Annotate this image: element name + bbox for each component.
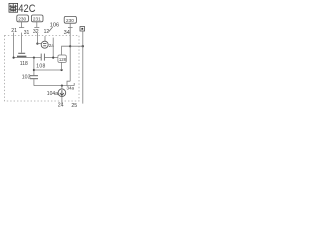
svg-text:34a: 34a (67, 85, 75, 90)
capacitor 103 (30, 76, 38, 79)
svg-text:34: 34 (64, 30, 70, 36)
wire capacitor 103 to bottom bus (33, 79, 35, 85)
capacitor 108 series plates (41, 54, 44, 61)
svg-text:25: 25 (71, 103, 77, 109)
svg-text:118: 118 (20, 61, 28, 67)
terminal stub under box 230 right (68, 23, 73, 27)
wire 32 vertical (36, 33, 38, 44)
svg-text:103: 103 (22, 74, 31, 80)
wire 34 vertical from box 230 right down (69, 28, 71, 82)
leader line for 106 (49, 27, 53, 32)
capacitor 118 (17, 53, 26, 56)
node junction at 33.5,70 (33, 69, 35, 71)
wire 31 vertical into capacitor 118 (21, 33, 23, 53)
node junction at 61.8,85.5 (61, 85, 63, 87)
dashed boundary box of circuit 230 (5, 36, 80, 102)
terminal stub under box 231 (34, 22, 39, 27)
node junction at 37,43 (36, 43, 38, 45)
bus wire left segment (13, 57, 41, 59)
svg-text:42C: 42C (18, 3, 35, 15)
svg-text:230: 230 (66, 18, 74, 23)
node junction at 61.5,70 (61, 69, 63, 71)
wire from 128 bottom to node 61.5,70 (61, 62, 63, 70)
svg-text:12: 12 (44, 29, 50, 35)
svg-text:128: 128 (59, 57, 67, 62)
block label box 231 (31, 15, 43, 22)
block label box 230 (right) (64, 16, 76, 23)
wire from node 70,46 down into 128 top (62, 46, 71, 55)
svg-text:21: 21 (11, 28, 17, 34)
svg-text:104a: 104a (47, 91, 58, 97)
current source circle 104a (58, 86, 66, 97)
wire 70 horizontal to block 128 (34, 69, 62, 71)
wire jog down to bottom bus (67, 81, 70, 85)
svg-text:31: 31 (24, 30, 30, 36)
svg-text:230: 230 (18, 17, 26, 22)
svg-text:106: 106 (50, 22, 59, 28)
title figure label 圖42C (9, 3, 18, 12)
node junction at 13.5,57.5 (13, 57, 15, 59)
node junction at 82.7,46 (82, 45, 84, 47)
svg-text:108: 108 (36, 64, 45, 70)
wire 12 vertical into comparator top (44, 36, 46, 41)
svg-text:231: 231 (33, 17, 41, 22)
terminal stub under box 230 left (19, 22, 24, 28)
node junction at 34,57.5 (33, 57, 35, 59)
wire 106 vertical (52, 38, 54, 58)
svg-text:32: 32 (33, 29, 39, 35)
block box 128 (58, 55, 67, 62)
bottom bus wire (34, 85, 74, 87)
terminal wire 24 (61, 97, 63, 104)
terminal pad a (80, 27, 85, 31)
node junction at 53,57.5 (52, 57, 54, 59)
terminal wire 25 (82, 31, 84, 104)
wire to comparator 24 input (37, 43, 41, 45)
block label box 230 (left) (17, 15, 29, 22)
wire 46 horizontal to terminal line 25 (70, 45, 83, 47)
svg-text:24: 24 (58, 103, 64, 109)
wire 21 vertical (13, 33, 15, 58)
comparator circle 24 (41, 41, 48, 48)
bus wire right segment (44, 57, 57, 59)
node junction at 70,46 (69, 45, 71, 47)
wire down to capacitor 103 (33, 58, 35, 76)
